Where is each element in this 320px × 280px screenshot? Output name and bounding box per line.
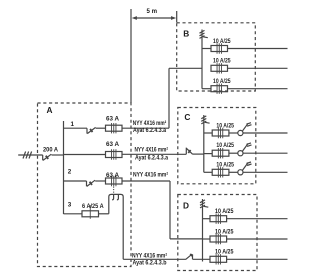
svg-text:D: D xyxy=(183,201,189,211)
svg-text:10 A/25: 10 A/25 xyxy=(216,162,234,169)
svg-text:10 A/25: 10 A/25 xyxy=(215,228,234,235)
svg-text:NYY 4X16 mm²: NYY 4X16 mm² xyxy=(133,120,166,127)
svg-text:5 m: 5 m xyxy=(147,8,158,15)
svg-text:63 A: 63 A xyxy=(106,172,119,179)
svg-text:1: 1 xyxy=(71,121,75,128)
svg-text:Ayat 6.2.4.3.a: Ayat 6.2.4.3.a xyxy=(133,127,166,134)
svg-text:A: A xyxy=(47,105,53,115)
svg-text:10 A/25: 10 A/25 xyxy=(213,58,231,65)
svg-text:63 A: 63 A xyxy=(106,141,119,148)
svg-text:10 A/25: 10 A/25 xyxy=(215,208,234,215)
svg-text:200 A: 200 A xyxy=(43,147,58,154)
svg-text:6 A/25 A: 6 A/25 A xyxy=(82,203,104,210)
svg-text:NYY 4X16 mm²: NYY 4X16 mm² xyxy=(132,252,167,259)
svg-text:Ayat 6.2.4.3.b: Ayat 6.2.4.3.b xyxy=(133,259,167,266)
svg-text:10 A/25: 10 A/25 xyxy=(216,122,234,129)
svg-text:10 A/25: 10 A/25 xyxy=(216,142,234,149)
svg-text:2: 2 xyxy=(68,169,72,176)
svg-text:10 A/25: 10 A/25 xyxy=(213,78,231,85)
svg-text:10 A/25: 10 A/25 xyxy=(215,249,234,256)
svg-text:NYY 4X16 mm²: NYY 4X16 mm² xyxy=(133,172,168,179)
svg-text:63 A: 63 A xyxy=(106,115,119,122)
svg-text:B: B xyxy=(183,29,189,39)
svg-text:3: 3 xyxy=(68,202,72,209)
svg-text:NYY 4X16 mm²: NYY 4X16 mm² xyxy=(135,146,168,153)
svg-text:C: C xyxy=(184,112,190,122)
svg-text:Ayat 6.2.4.3.a: Ayat 6.2.4.3.a xyxy=(135,154,168,161)
svg-text:10 A/25: 10 A/25 xyxy=(213,38,231,45)
